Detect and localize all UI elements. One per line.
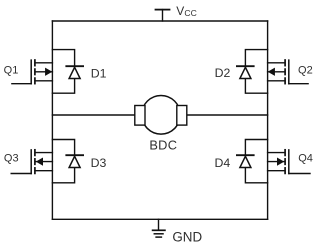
svg-text:D1: D1 — [91, 66, 107, 80]
transistor Q2 — [268, 60, 309, 84]
svg-text:Q2: Q2 — [298, 64, 313, 76]
wire bottom rail (GND bus) — [52, 218, 267, 220]
transistor Q4 — [268, 150, 310, 174]
svg-text:D2: D2 — [215, 66, 231, 80]
ground — [153, 219, 165, 237]
wire motor left — [52, 114, 134, 116]
transistor Q1 — [12, 60, 53, 84]
diode D1 — [52, 50, 83, 94]
transistor Q3 — [11, 150, 52, 174]
svg-text:Q3: Q3 — [4, 153, 19, 165]
svg-text:CC: CC — [184, 8, 196, 18]
power VCC symbol — [156, 10, 170, 21]
wire right rail — [267, 21, 269, 219]
svg-text:D4: D4 — [214, 156, 230, 170]
svg-text:BDC: BDC — [149, 137, 177, 152]
wire top rail (VCC bus) — [52, 20, 267, 22]
svg-text:Q1: Q1 — [4, 64, 19, 76]
svg-text:V: V — [176, 4, 184, 18]
diode D4 — [237, 140, 268, 183]
diode D3 — [52, 140, 83, 183]
svg-text:GND: GND — [172, 230, 202, 245]
wire motor right — [187, 114, 268, 116]
diode D2 — [237, 50, 268, 94]
label VCC — [176, 4, 197, 18]
svg-text:Q4: Q4 — [298, 153, 313, 165]
motor BDC — [135, 96, 187, 135]
svg-text:D3: D3 — [91, 156, 107, 170]
wire left rail — [51, 21, 53, 219]
